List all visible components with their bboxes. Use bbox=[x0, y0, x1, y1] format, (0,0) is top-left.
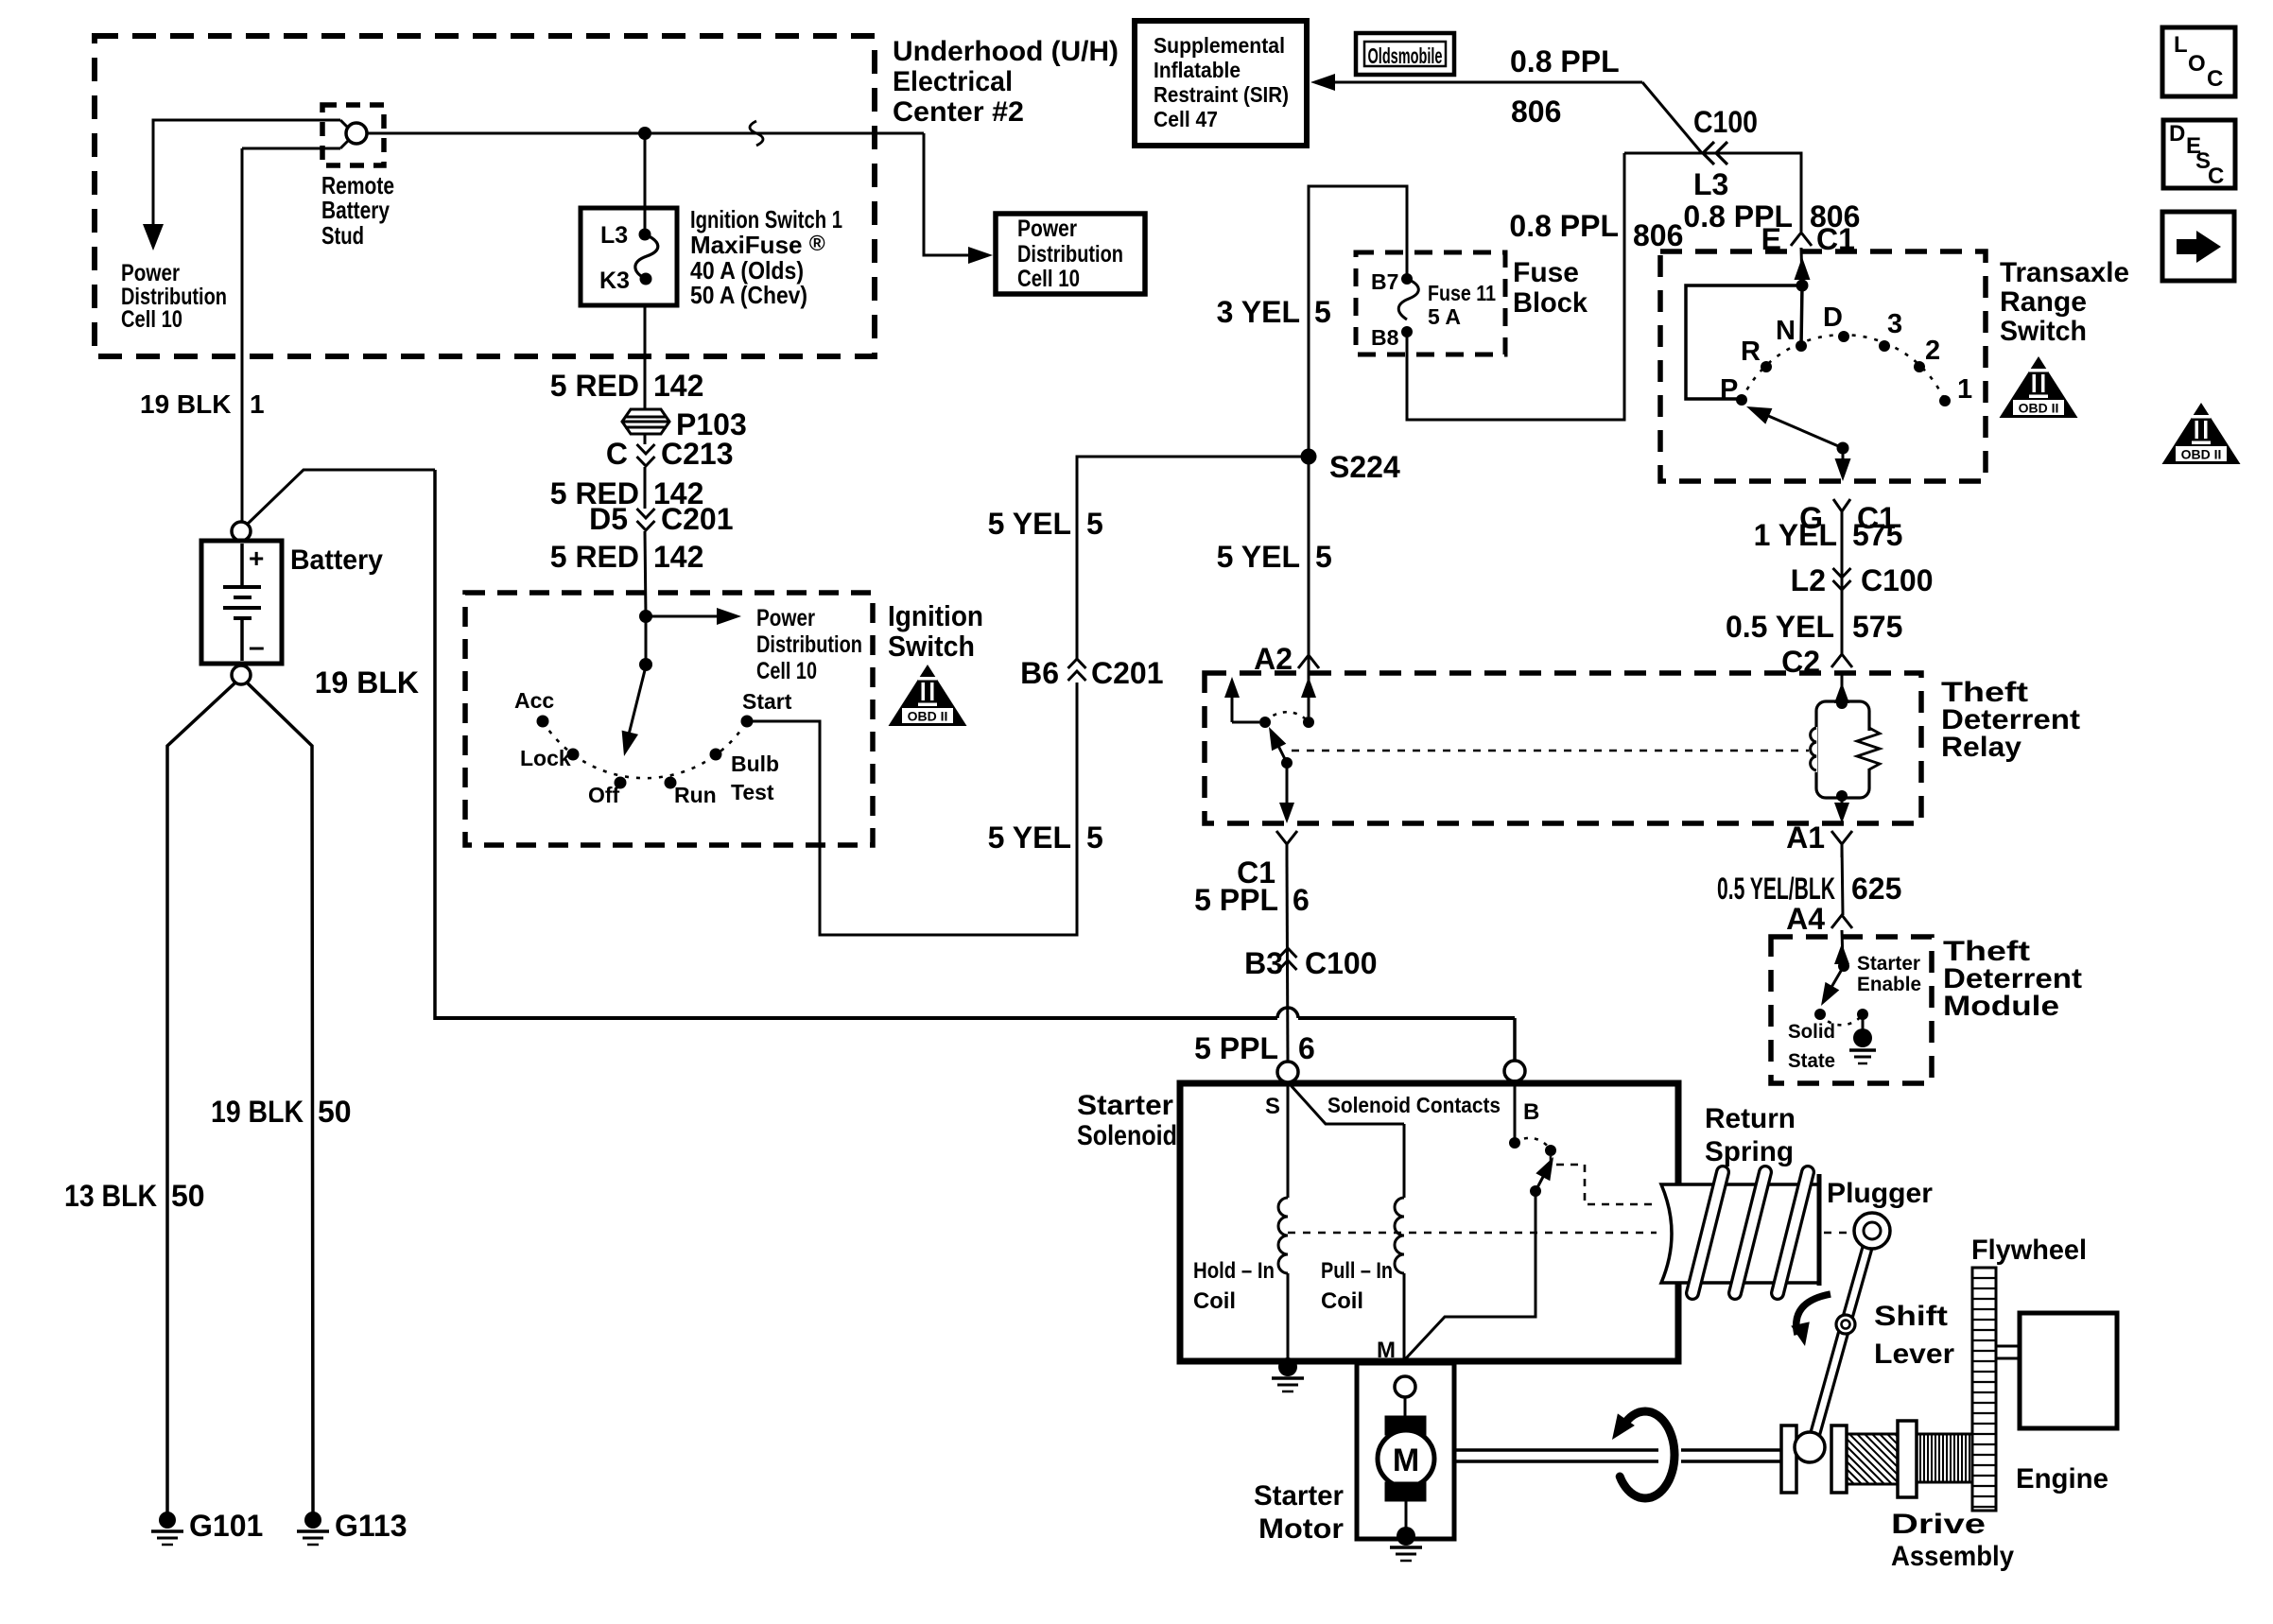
theft deterrent module dashed box bbox=[1771, 937, 1932, 1083]
junction node 1 in ignition switch bbox=[639, 610, 652, 623]
svg-text:Fuse: Fuse bbox=[1513, 257, 1579, 288]
arrow into SIR box bbox=[1310, 74, 1335, 91]
selector pivot bbox=[1837, 442, 1849, 455]
svg-text:142: 142 bbox=[653, 369, 703, 403]
drive plate 3 bbox=[1898, 1421, 1917, 1497]
svg-text:Solenoid: Solenoid bbox=[1077, 1120, 1177, 1151]
relay coil bumps bbox=[1809, 727, 1817, 772]
connector A2 chevron bbox=[1298, 655, 1319, 668]
wire: C2 into relay bbox=[1841, 673, 1844, 703]
wire: junction to fuse bbox=[644, 133, 647, 235]
svg-text:State: State bbox=[1788, 1050, 1835, 1072]
wire: blade to M bbox=[1406, 1191, 1536, 1358]
theft deterrent relay dashed box bbox=[1205, 673, 1921, 823]
svg-text:3: 3 bbox=[1887, 309, 1902, 339]
module switch top dot bbox=[1838, 960, 1849, 972]
arrow up (A2 into relay) bbox=[1301, 677, 1316, 698]
svg-text:Off: Off bbox=[588, 783, 620, 807]
starter motor box bbox=[1357, 1363, 1454, 1539]
M terminal circle bbox=[1395, 1376, 1415, 1397]
svg-text:Starter: Starter bbox=[1254, 1480, 1344, 1512]
node S224 bbox=[1301, 449, 1317, 465]
transaxle range switch dashed box bbox=[1660, 251, 1986, 481]
relay coil node top bbox=[1836, 698, 1848, 709]
junction node (switch) bbox=[1796, 280, 1809, 292]
wire: C1 to S terminal bbox=[1287, 857, 1288, 1063]
svg-text:Distribution: Distribution bbox=[1017, 241, 1123, 268]
wire: B8 down and over to 806 riser bbox=[1407, 153, 1624, 420]
svg-text:Electrical: Electrical bbox=[893, 66, 1013, 97]
svg-text:D: D bbox=[1823, 302, 1843, 333]
svg-text:D5: D5 bbox=[589, 502, 628, 536]
svg-text:Switch: Switch bbox=[2000, 316, 2087, 347]
svg-text:Flywheel: Flywheel bbox=[1971, 1235, 2087, 1266]
svg-text:Power: Power bbox=[121, 260, 180, 286]
svg-text:Power: Power bbox=[1017, 216, 1077, 242]
svg-text:Supplemental: Supplemental bbox=[1154, 33, 1285, 58]
contact 3 bbox=[1879, 340, 1890, 352]
wire: junction to N contact bbox=[1801, 285, 1802, 346]
svg-text:Motor: Motor bbox=[1258, 1513, 1344, 1545]
wire: A1 to A4 bbox=[1842, 844, 1843, 915]
svg-text:Block: Block bbox=[1513, 287, 1588, 319]
svg-text:5 RED: 5 RED bbox=[550, 540, 639, 574]
wire: S to pull-in coil bbox=[1291, 1085, 1404, 1124]
motor shaft bbox=[1454, 1448, 1658, 1452]
svg-text:N: N bbox=[1776, 316, 1796, 346]
svg-text:50 A (Chev): 50 A (Chev) bbox=[690, 281, 807, 309]
return spring coil 1 bbox=[1692, 1172, 1723, 1293]
wire: diagonal to SIR arrow bbox=[1642, 82, 1702, 153]
svg-text:Start: Start bbox=[742, 689, 792, 714]
svg-text:1: 1 bbox=[1957, 374, 1972, 405]
svg-text:Inflatable: Inflatable bbox=[1154, 58, 1241, 82]
wire: 19 BLK run to B terminal bbox=[435, 1016, 1277, 1020]
drive plate 2 bbox=[1831, 1425, 1847, 1493]
svg-text:13 BLK: 13 BLK bbox=[64, 1179, 157, 1213]
arrow up (module feed) bbox=[1834, 943, 1849, 964]
underhood electrical center #2 dashed box bbox=[95, 36, 875, 356]
svg-text:5 PPL: 5 PPL bbox=[1194, 1031, 1278, 1065]
svg-text:O: O bbox=[2188, 51, 2206, 77]
svg-text:Module: Module bbox=[1943, 991, 2059, 1022]
svg-text:A4: A4 bbox=[1786, 902, 1825, 936]
wire: S224 down to A2 bbox=[1308, 457, 1310, 670]
svg-text:0.5 YEL/BLK: 0.5 YEL/BLK bbox=[1717, 872, 1835, 906]
svg-text:5: 5 bbox=[1086, 821, 1103, 855]
svg-text:Spring: Spring bbox=[1705, 1136, 1794, 1167]
module solid state output bbox=[1862, 1014, 1865, 1030]
Power Distribution Cell 10 box bbox=[996, 214, 1145, 294]
svg-text:C201: C201 bbox=[1091, 656, 1164, 690]
LOC box bbox=[2162, 27, 2235, 96]
contact R bbox=[1761, 361, 1772, 372]
svg-text:C201: C201 bbox=[661, 502, 734, 536]
shift lever pivot eye bbox=[1836, 1315, 1855, 1334]
arrow up (switch feed) bbox=[1795, 257, 1811, 280]
wire: relay coil out bbox=[1841, 796, 1844, 805]
solenoid contact dot right bbox=[1545, 1145, 1556, 1156]
svg-text:6: 6 bbox=[1298, 1031, 1315, 1065]
wire: battery - split to grounds bbox=[167, 682, 235, 1512]
svg-text:806: 806 bbox=[1511, 95, 1561, 129]
svg-text:B6: B6 bbox=[1020, 656, 1059, 690]
wire: pivot down out of switch bbox=[1842, 448, 1845, 460]
ignition rotor arrow bbox=[628, 666, 646, 738]
svg-text:R: R bbox=[1741, 337, 1761, 367]
svg-text:P: P bbox=[1720, 374, 1738, 405]
svg-text:Solenoid Contacts: Solenoid Contacts bbox=[1327, 1093, 1501, 1117]
svg-text:+: + bbox=[249, 544, 264, 573]
svg-text:OBD II: OBD II bbox=[908, 709, 948, 724]
axis dashes to shift lever bbox=[1824, 1232, 1851, 1235]
fuse element L3-K3 bbox=[639, 229, 651, 241]
wire: A4 into module bbox=[1842, 930, 1843, 961]
junction node on feed wire bbox=[638, 127, 651, 140]
shift lever top eye bbox=[1854, 1213, 1890, 1249]
DESC box bbox=[2163, 120, 2235, 188]
svg-text:Return: Return bbox=[1705, 1103, 1796, 1134]
connector C100 chevrons << bbox=[1703, 142, 1727, 164]
contact 1 bbox=[1939, 395, 1951, 406]
wire: C213 to C201 bbox=[644, 467, 647, 509]
relay contact dot left bbox=[1259, 717, 1271, 728]
contact 2 bbox=[1914, 361, 1925, 372]
wire: top horizontal to E C1 bbox=[1624, 153, 1801, 232]
svg-text:Engine: Engine bbox=[2016, 1463, 2108, 1494]
svg-text:Pull – In: Pull – In bbox=[1321, 1258, 1393, 1284]
solid state blob and ground bbox=[1853, 1028, 1872, 1047]
rotation arrow bbox=[1620, 1411, 1674, 1498]
svg-text:OBD II: OBD II bbox=[2181, 447, 2222, 462]
svg-text:C100: C100 bbox=[1305, 946, 1378, 980]
connector C213 chevrons bbox=[637, 444, 655, 466]
svg-text:Cell 10: Cell 10 bbox=[756, 658, 817, 684]
wire break symbol bbox=[750, 121, 763, 146]
svg-text:Shift: Shift bbox=[1874, 1301, 1948, 1332]
svg-text:0.8 PPL: 0.8 PPL bbox=[1509, 209, 1619, 243]
wire: stud top fork to left arrow bbox=[153, 120, 340, 229]
svg-text:C100: C100 bbox=[1861, 563, 1934, 597]
wire: C201 to ignition switch bbox=[645, 531, 646, 616]
svg-text:Oldsmobile: Oldsmobile bbox=[1368, 43, 1443, 68]
B terminal circle bbox=[1504, 1061, 1525, 1081]
hold-in coil wire bbox=[1287, 1083, 1290, 1198]
svg-text:Fuse 11: Fuse 11 bbox=[1428, 281, 1496, 305]
svg-text:B: B bbox=[1523, 1099, 1539, 1125]
relay blade bbox=[1276, 742, 1287, 763]
svg-text:S224: S224 bbox=[1329, 450, 1400, 484]
svg-text:Cell 10: Cell 10 bbox=[121, 306, 182, 333]
mechanical dashed link (contacts to plunger) bbox=[1551, 1156, 1655, 1204]
arrow right (ignition feed) bbox=[717, 608, 741, 625]
svg-text:Ignition: Ignition bbox=[888, 599, 983, 632]
svg-text:C: C bbox=[606, 437, 628, 471]
svg-text:0.5 YEL: 0.5 YEL bbox=[1726, 610, 1834, 644]
drive plate 1 bbox=[1781, 1425, 1796, 1493]
return spring coil 3 bbox=[1778, 1172, 1808, 1293]
svg-text:Test: Test bbox=[731, 780, 774, 804]
svg-text:Battery: Battery bbox=[290, 544, 383, 576]
svg-text:Cell 10: Cell 10 bbox=[1017, 266, 1080, 292]
relay contact dot right bbox=[1303, 717, 1314, 728]
svg-text:806: 806 bbox=[1633, 218, 1683, 252]
arrow down to Power Distribution bbox=[143, 224, 164, 251]
drive screw block (hatched) bbox=[1847, 1434, 1898, 1484]
module blade bbox=[1831, 966, 1844, 989]
connector A4 chevron bbox=[1831, 915, 1852, 928]
fuse 11 element bbox=[1401, 273, 1413, 285]
remote battery stud dashed box bbox=[322, 105, 384, 165]
svg-text:M: M bbox=[1377, 1338, 1396, 1363]
contact N bbox=[1796, 340, 1807, 352]
wire: relay out to C1 bbox=[1286, 763, 1289, 803]
wire: B6 to S224 corner bbox=[1077, 457, 1301, 659]
svg-text:575: 575 bbox=[1852, 610, 1902, 644]
svg-text:Lock: Lock bbox=[520, 746, 571, 770]
svg-text:L3: L3 bbox=[600, 222, 628, 249]
ignition switch dashed arc bbox=[543, 721, 747, 778]
S terminal circle bbox=[1277, 1062, 1298, 1082]
flywheel gear bbox=[1972, 1268, 1996, 1511]
connector E C1 chevron bbox=[1791, 233, 1812, 246]
svg-text:19 BLK: 19 BLK bbox=[140, 389, 231, 419]
arrow down (switch out) bbox=[1835, 458, 1851, 481]
OBD II triangle (right margin) bbox=[2162, 403, 2241, 464]
svg-text:2: 2 bbox=[1925, 336, 1940, 366]
svg-text:50: 50 bbox=[318, 1095, 352, 1129]
svg-text:5: 5 bbox=[1086, 507, 1103, 541]
arrow down (relay out) bbox=[1279, 803, 1294, 823]
svg-text:0.8 PPL: 0.8 PPL bbox=[1510, 44, 1620, 78]
svg-text:Coil: Coil bbox=[1321, 1288, 1363, 1314]
battery - terminal circle bbox=[232, 665, 251, 684]
svg-text:Assembly: Assembly bbox=[1891, 1541, 2014, 1572]
contact P bbox=[1736, 394, 1747, 406]
svg-text:Restraint (SIR): Restraint (SIR) bbox=[1154, 82, 1289, 107]
svg-text:Center #2: Center #2 bbox=[893, 96, 1024, 128]
svg-text:Drive: Drive bbox=[1891, 1509, 1986, 1540]
wire: battery + to 19 BLK riser bbox=[248, 470, 435, 524]
svg-text:K3: K3 bbox=[599, 268, 630, 294]
svg-text:OBD II: OBD II bbox=[2019, 401, 2059, 416]
svg-text:Starter: Starter bbox=[1077, 1090, 1173, 1121]
drive ball bbox=[1795, 1432, 1825, 1462]
svg-text:C: C bbox=[2207, 66, 2223, 92]
MaxiFuse box bbox=[581, 208, 677, 305]
ground G113 bbox=[304, 1512, 321, 1529]
svg-text:Ignition Switch 1: Ignition Switch 1 bbox=[690, 205, 842, 233]
svg-text:50: 50 bbox=[171, 1179, 205, 1213]
svg-text:Range: Range bbox=[2000, 286, 2087, 318]
svg-text:142: 142 bbox=[653, 540, 703, 574]
connector G C1 bbox=[1833, 499, 1850, 511]
hold-in ground bbox=[1278, 1357, 1297, 1376]
starter solenoid box bbox=[1180, 1083, 1678, 1361]
svg-text:Switch: Switch bbox=[888, 630, 975, 663]
svg-text:Transaxle: Transaxle bbox=[2000, 257, 2129, 288]
ignition switch dashed box bbox=[465, 593, 873, 845]
svg-text:Hold – In: Hold – In bbox=[1193, 1258, 1275, 1284]
svg-text:L2: L2 bbox=[1791, 563, 1826, 597]
wire: fuse to P103 bbox=[644, 305, 647, 410]
svg-text:Battery: Battery bbox=[321, 196, 390, 224]
wire: P103 to C213 bbox=[644, 434, 647, 444]
svg-text:Relay: Relay bbox=[1941, 732, 2021, 763]
connector C201 chevrons bbox=[637, 509, 655, 530]
selector arm bbox=[1766, 415, 1843, 448]
svg-text:MaxiFuse ®: MaxiFuse ® bbox=[690, 231, 825, 259]
svg-text:C100: C100 bbox=[1693, 105, 1758, 139]
svg-text:575: 575 bbox=[1852, 518, 1902, 552]
switch contact frame bbox=[1686, 285, 1802, 399]
svg-text:C213: C213 bbox=[661, 437, 734, 471]
wire: Start to B6 riser bbox=[747, 682, 1077, 935]
svg-text:D: D bbox=[2169, 121, 2185, 147]
arrow down (coil out) bbox=[1834, 803, 1849, 823]
svg-text:Lever: Lever bbox=[1874, 1339, 1954, 1370]
relay coil frame bbox=[1816, 701, 1869, 798]
svg-text:5 YEL: 5 YEL bbox=[988, 507, 1071, 541]
contact D bbox=[1838, 331, 1849, 342]
svg-text:Run: Run bbox=[674, 783, 717, 807]
SIR box bbox=[1135, 21, 1307, 146]
return spring coil 2 bbox=[1735, 1172, 1765, 1293]
svg-text:5: 5 bbox=[1314, 295, 1331, 329]
wire: M to motor bbox=[1404, 1397, 1407, 1416]
arrow into Power Distribution box bbox=[968, 247, 993, 264]
svg-text:5 PPL: 5 PPL bbox=[1194, 883, 1278, 917]
svg-text:5: 5 bbox=[1315, 540, 1332, 574]
wire: stud fork bbox=[340, 120, 349, 148]
svg-text:Power: Power bbox=[756, 605, 815, 631]
OBD II triangle (transaxle) bbox=[2000, 356, 2078, 418]
wire: stud to junction bbox=[367, 132, 924, 135]
OBD II triangle (ignition) bbox=[889, 665, 967, 726]
svg-text:Bulb: Bulb bbox=[731, 752, 779, 776]
connector C1 chevron (relay) bbox=[1276, 831, 1297, 844]
svg-text:Enable: Enable bbox=[1857, 974, 1921, 995]
svg-text:L: L bbox=[2174, 32, 2188, 58]
svg-text:–: – bbox=[249, 631, 265, 663]
wire: feed to power dist box bbox=[924, 133, 972, 255]
module contact dashed arc bbox=[1820, 1014, 1863, 1025]
ignition switch position dots bbox=[537, 716, 549, 728]
wire: arrow to power distribution (ignition) bbox=[646, 615, 720, 618]
svg-text:19 BLK: 19 BLK bbox=[211, 1095, 304, 1129]
wire: G C1 to relay C2 bbox=[1841, 529, 1844, 654]
svg-text:Distribution: Distribution bbox=[756, 631, 862, 658]
solenoid axis dashed line bbox=[1288, 1232, 1657, 1235]
svg-text:G113: G113 bbox=[335, 1509, 408, 1543]
svg-text:B3: B3 bbox=[1244, 946, 1283, 980]
svg-text:M: M bbox=[1393, 1443, 1419, 1478]
battery cell symbol bbox=[240, 544, 244, 587]
motor symbol bbox=[1378, 1430, 1434, 1487]
Oldsmobile box bbox=[1356, 33, 1454, 75]
svg-text:C: C bbox=[2208, 164, 2224, 189]
junction node 2 in ignition switch bbox=[639, 658, 652, 671]
solenoid blade pivot bbox=[1530, 1185, 1541, 1197]
module contact dot right bbox=[1857, 1009, 1868, 1020]
motor ground bbox=[1397, 1527, 1415, 1546]
pull-in coil wire bbox=[1403, 1124, 1406, 1198]
ground G101 bbox=[159, 1512, 176, 1529]
svg-text:Plugger: Plugger bbox=[1827, 1178, 1933, 1209]
svg-text:1: 1 bbox=[250, 389, 265, 419]
fuse block dashed box bbox=[1356, 252, 1505, 354]
svg-text:19 BLK: 19 BLK bbox=[315, 665, 419, 700]
svg-text:Stud: Stud bbox=[321, 221, 364, 250]
transaxle dashed contact arc bbox=[1742, 335, 1945, 401]
connector A1 chevron bbox=[1831, 831, 1852, 844]
svg-text:B7: B7 bbox=[1371, 269, 1398, 294]
wire: E C1 into switch bbox=[1801, 248, 1802, 285]
engine shaft bbox=[1996, 1345, 2020, 1348]
svg-text:5 RED: 5 RED bbox=[550, 369, 639, 403]
engine box bbox=[2020, 1313, 2117, 1428]
battery + terminal circle bbox=[232, 522, 251, 541]
connector B6 C201 chevrons bbox=[1068, 659, 1086, 681]
wire: SIR feed horizontal bbox=[1331, 81, 1642, 84]
svg-text:L3: L3 bbox=[1693, 167, 1728, 201]
remote battery stud circle bbox=[346, 123, 367, 144]
connector L2 C100 chevrons bbox=[1833, 568, 1851, 590]
svg-text:5 A: 5 A bbox=[1428, 304, 1461, 329]
svg-text:Underhood (U/H): Underhood (U/H) bbox=[893, 36, 1119, 67]
relay switch left contact bbox=[1231, 696, 1234, 722]
svg-text:Solid: Solid bbox=[1788, 1021, 1835, 1043]
wire: 19 BLK riser down bbox=[433, 470, 437, 1020]
relay coil node bottom bbox=[1836, 790, 1848, 802]
svg-text:5 YEL: 5 YEL bbox=[988, 821, 1071, 855]
svg-text:Starter: Starter bbox=[1857, 953, 1920, 975]
svg-text:S: S bbox=[1265, 1094, 1280, 1119]
arrow up (C2 into relay) bbox=[1834, 682, 1849, 703]
arrow box bbox=[2162, 212, 2234, 281]
connector C2 chevron bbox=[1831, 654, 1852, 667]
plunger body bbox=[1661, 1184, 1819, 1283]
svg-text:B8: B8 bbox=[1371, 325, 1399, 350]
svg-text:Acc: Acc bbox=[514, 688, 554, 713]
wire: motor to ground bbox=[1405, 1501, 1408, 1529]
wire: B into contacts bbox=[1514, 1080, 1517, 1143]
relay contact dashed arc bbox=[1265, 712, 1309, 722]
svg-text:1 YEL: 1 YEL bbox=[1754, 518, 1837, 552]
solenoid contact dashed arc bbox=[1515, 1138, 1551, 1150]
battery box bbox=[201, 541, 282, 664]
relay actuate dashed line bbox=[1292, 750, 1809, 752]
shift lever curved arrow bbox=[1796, 1294, 1831, 1335]
wire: junction 1 to junction 2 bbox=[645, 616, 648, 665]
shift lever rod bbox=[1841, 1230, 1867, 1323]
svg-text:5 YEL: 5 YEL bbox=[1217, 540, 1300, 574]
svg-text:6: 6 bbox=[1293, 883, 1310, 917]
svg-text:Coil: Coil bbox=[1193, 1288, 1236, 1314]
wire: stud to battery + bbox=[241, 148, 244, 521]
plugger bar bbox=[1817, 1174, 1822, 1286]
connector B3 C100 chevrons bbox=[1279, 948, 1297, 970]
solenoid blade bbox=[1536, 1175, 1544, 1191]
wire: S224 up loop to fuse block bbox=[1309, 186, 1407, 457]
svg-text:3 YEL: 3 YEL bbox=[1217, 295, 1300, 329]
motor brush top bbox=[1385, 1416, 1426, 1435]
svg-text:625: 625 bbox=[1851, 872, 1901, 906]
svg-text:G101: G101 bbox=[189, 1509, 263, 1543]
wire: A2 into relay bbox=[1308, 670, 1310, 717]
module contact dot left bbox=[1814, 1009, 1826, 1020]
svg-text:Cell 47: Cell 47 bbox=[1154, 107, 1218, 131]
